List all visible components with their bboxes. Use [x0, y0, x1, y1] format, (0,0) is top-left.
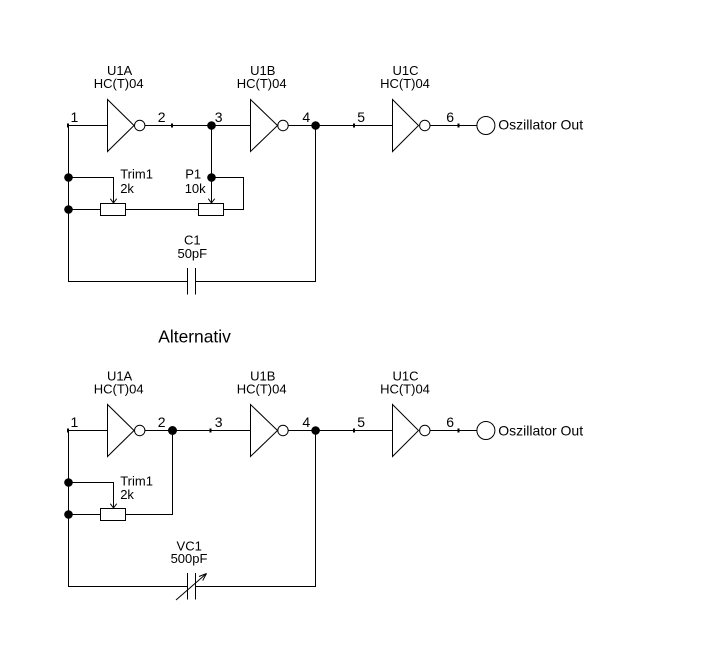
- wire U1A output to U1B input (bottom): [145, 430, 251, 432]
- op-amp U1A inverter triangle (top): [108, 100, 135, 152]
- wire U1C output to oscillator out terminal (top): [430, 125, 477, 127]
- pin 1 end tick (top): [67, 124, 69, 128]
- U1A inverter bubble (top): [135, 120, 145, 130]
- U1B inverter bubble (top): [278, 120, 288, 130]
- svg-text:HC(T)04: HC(T)04: [94, 382, 144, 397]
- svg-text:5: 5: [357, 109, 365, 125]
- pin 6 end tick (bottom): [457, 429, 459, 433]
- svg-text:HC(T)04: HC(T)04: [380, 382, 430, 397]
- svg-text:HC(T)04: HC(T)04: [237, 382, 287, 397]
- U1A inverter bubble (bottom): [135, 425, 145, 435]
- VC1 variable-capacitor arrow (bottom): [176, 574, 207, 601]
- wire U1B output to U1C input (bottom): [288, 430, 392, 432]
- wire U1A output to U1B input (top): [145, 125, 251, 127]
- Trim1 wiper arrowhead (top): [110, 199, 116, 203]
- P1 wiper arrowhead (top): [208, 199, 214, 203]
- wire Trim1 left terminal (bottom): [69, 514, 101, 516]
- capacitor C1 plates (top): [188, 268, 196, 295]
- resistor Trim1 body (bottom): [101, 509, 126, 521]
- U1B inverter bubble (bottom): [278, 425, 288, 435]
- wire Trim1 wiper feed (top): [69, 178, 114, 203]
- op-amp U1C inverter triangle (bottom): [393, 405, 419, 457]
- op-amp U1A inverter triangle (bottom): [108, 405, 135, 457]
- junction node pin1/feedback (top): [64, 173, 73, 182]
- wire U1B output to U1C input (top): [288, 125, 392, 127]
- svg-text:2k: 2k: [120, 181, 134, 196]
- svg-text:Trim1: Trim1: [120, 473, 153, 488]
- svg-text:Oszillator Out: Oszillator Out: [498, 423, 583, 439]
- wire P1 wiper-to-right-terminal loop (top): [212, 178, 244, 210]
- wire C1 plate to bottom right (top): [196, 281, 316, 283]
- junction node P1 wiper (top): [207, 173, 216, 182]
- svg-text:1: 1: [71, 414, 79, 430]
- junction node pin 4 (top): [311, 121, 320, 130]
- svg-text:2: 2: [158, 414, 166, 430]
- wire left feedback rail (bottom): [68, 431, 70, 587]
- wire pin3 rail to P1 wiper (top): [211, 126, 213, 203]
- wire pin1 stub U1A input (top): [68, 125, 108, 127]
- op-amp U1B inverter triangle (top): [251, 100, 278, 152]
- oscillator out terminal circle (bottom): [477, 422, 495, 440]
- wire bottom left to C1 plate (top): [68, 281, 188, 283]
- svg-text:4: 4: [302, 109, 310, 125]
- svg-text:3: 3: [215, 109, 223, 125]
- svg-text:Trim1: Trim1: [120, 167, 153, 182]
- svg-text:P1: P1: [185, 167, 201, 182]
- junction node pin1/feedback (bottom): [64, 478, 73, 487]
- svg-text:1: 1: [71, 109, 79, 125]
- wire right rail pin4 down to C1 (top): [315, 126, 317, 282]
- pin 2 end tick (top): [171, 124, 173, 128]
- junction node pin 4 (bottom): [311, 426, 320, 435]
- svg-text:500pF: 500pF: [171, 551, 208, 566]
- junction node pin 3 (top): [207, 121, 216, 130]
- svg-text:2: 2: [158, 109, 166, 125]
- wire U1C output to oscillator out terminal (bottom): [430, 430, 477, 432]
- svg-text:HC(T)04: HC(T)04: [380, 76, 430, 91]
- wire Trim1 right terminal to P1 left terminal (top): [126, 209, 199, 211]
- pin 3 end tick (bottom): [210, 429, 212, 433]
- pin 1 end tick (bottom): [67, 429, 69, 433]
- op-amp U1C inverter triangle (top): [393, 100, 419, 152]
- capacitor VC1 plates (bottom): [188, 573, 196, 600]
- wire bottom left to VC1 plate (bottom): [68, 586, 188, 588]
- wire left feedback rail (top): [68, 126, 70, 282]
- U1C inverter bubble (bottom): [420, 425, 430, 435]
- svg-text:Oszillator Out: Oszillator Out: [498, 117, 583, 133]
- resistor Trim1 body (top): [101, 204, 126, 216]
- op-amp U1B inverter triangle (bottom): [251, 405, 278, 457]
- oscillator out terminal circle (top): [477, 117, 495, 135]
- wire VC1 plate to bottom right (bottom): [196, 586, 316, 588]
- svg-text:HC(T)04: HC(T)04: [237, 76, 287, 91]
- svg-text:10k: 10k: [185, 181, 206, 196]
- svg-text:3: 3: [215, 414, 223, 430]
- svg-text:4: 4: [302, 414, 310, 430]
- wire Trim1 right terminal up to pin2 (bottom): [126, 431, 173, 515]
- svg-text:Alternativ: Alternativ: [158, 327, 231, 347]
- svg-text:2k: 2k: [120, 487, 134, 502]
- wire pin1 stub U1A input (bottom): [68, 430, 108, 432]
- junction node Trim1 left (top): [64, 205, 73, 214]
- svg-text:6: 6: [446, 414, 454, 430]
- junction node pin 2 (bottom): [168, 426, 177, 435]
- wire Trim1 wiper feed (bottom): [69, 483, 114, 508]
- wire right rail pin4 down to VC1 (bottom): [315, 431, 317, 587]
- pin 5 end tick (top): [353, 124, 355, 128]
- wire Trim1 left terminal (top): [69, 209, 101, 211]
- pin 5 end tick (bottom): [353, 429, 355, 433]
- resistor P1 body (top): [199, 204, 224, 216]
- junction node Trim1 left (bottom): [64, 510, 73, 519]
- pin 6 end tick (top): [457, 124, 459, 128]
- svg-text:HC(T)04: HC(T)04: [94, 76, 144, 91]
- svg-text:50pF: 50pF: [177, 246, 207, 261]
- Trim1 wiper arrowhead (bottom): [110, 504, 116, 508]
- U1C inverter bubble (top): [420, 120, 430, 130]
- svg-text:6: 6: [446, 109, 454, 125]
- svg-text:5: 5: [357, 414, 365, 430]
